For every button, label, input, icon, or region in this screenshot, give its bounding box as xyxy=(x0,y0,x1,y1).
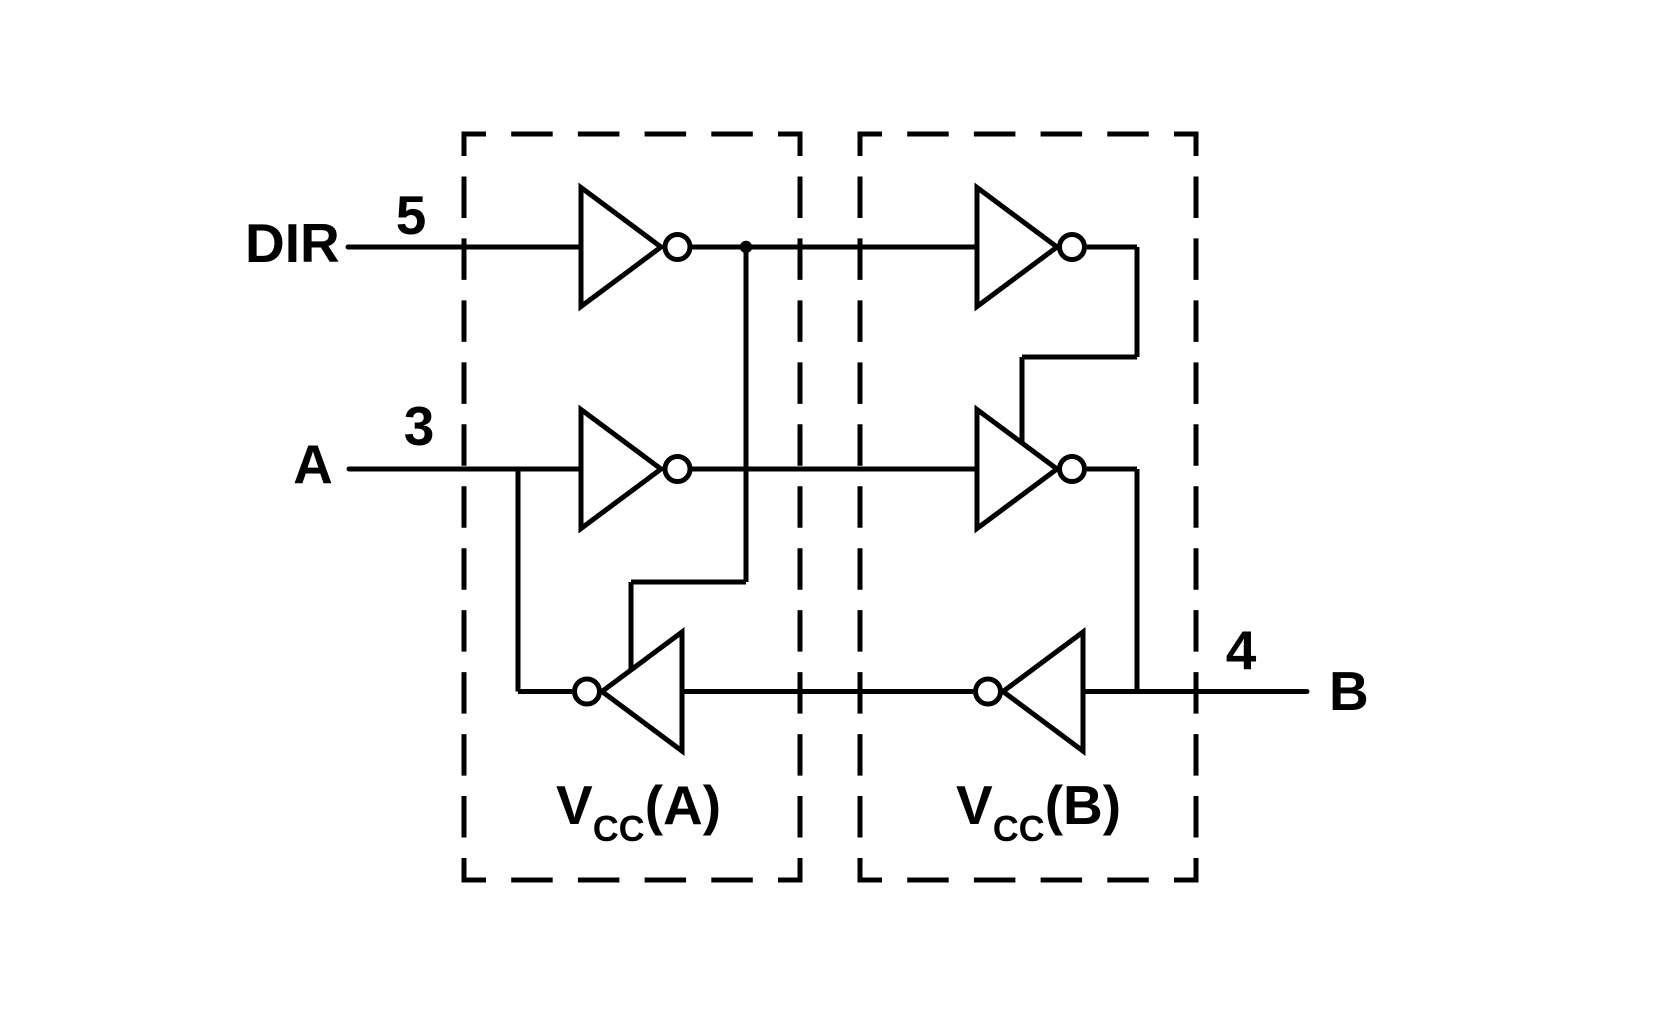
buffer U6 B-to-A driver (B side, points left) xyxy=(1003,632,1083,751)
bubble U5 output xyxy=(1060,457,1085,482)
wire A branch vertical down xyxy=(516,469,521,692)
svg-text:3: 3 xyxy=(404,395,435,457)
bubble U2 output xyxy=(665,457,690,482)
wire vertical from DIR node down xyxy=(744,247,749,582)
bubble U1 output xyxy=(665,235,690,260)
dashed box Vcc(A) power domain xyxy=(464,134,800,880)
buffer U3 B-to-A driver (A side, points left) xyxy=(602,632,682,751)
svg-text:A: A xyxy=(293,433,333,495)
wire top-right output down xyxy=(1135,247,1140,357)
wire enable feed left (B side) xyxy=(1022,355,1137,360)
svg-text:DIR: DIR xyxy=(245,212,340,274)
bubble U3 output xyxy=(575,679,600,704)
wire middle-right buffer output right xyxy=(1087,467,1137,472)
wire DIR buffer output to right-box buffer input xyxy=(691,245,977,250)
svg-text:5: 5 xyxy=(396,184,427,246)
wire bottom row between buffers xyxy=(682,689,973,694)
wire A buffer output to right-box buffer input xyxy=(691,467,977,472)
wire enable drop into bottom-left buffer xyxy=(629,582,634,672)
junction dot on DIR net xyxy=(740,241,752,253)
svg-text:4: 4 xyxy=(1226,619,1257,681)
wire A branch horizontal to bottom-left buffer output bubble xyxy=(518,689,572,694)
wire A input xyxy=(349,467,581,472)
buffer U5 A-to-B driver (B side) xyxy=(977,410,1057,529)
wire enable drop into middle-right buffer xyxy=(1020,357,1025,446)
wire middle-right output down to B line xyxy=(1135,469,1140,692)
wire B input xyxy=(1083,689,1307,694)
wire top-right buffer output right xyxy=(1087,245,1137,250)
bubble U4 output xyxy=(1060,235,1085,260)
dashed box Vcc(B) power domain xyxy=(860,134,1196,880)
buffer U1 DIR inverter (A side) xyxy=(581,188,661,307)
bubble U6 output xyxy=(976,679,1001,704)
buffer U2 A-to-B driver (A side) xyxy=(581,410,661,529)
wire DIR input xyxy=(348,245,581,250)
svg-text:B: B xyxy=(1329,660,1369,722)
wire horizontal enable feed left xyxy=(631,580,746,585)
buffer U4 DIR inverter (B side) xyxy=(977,188,1057,307)
